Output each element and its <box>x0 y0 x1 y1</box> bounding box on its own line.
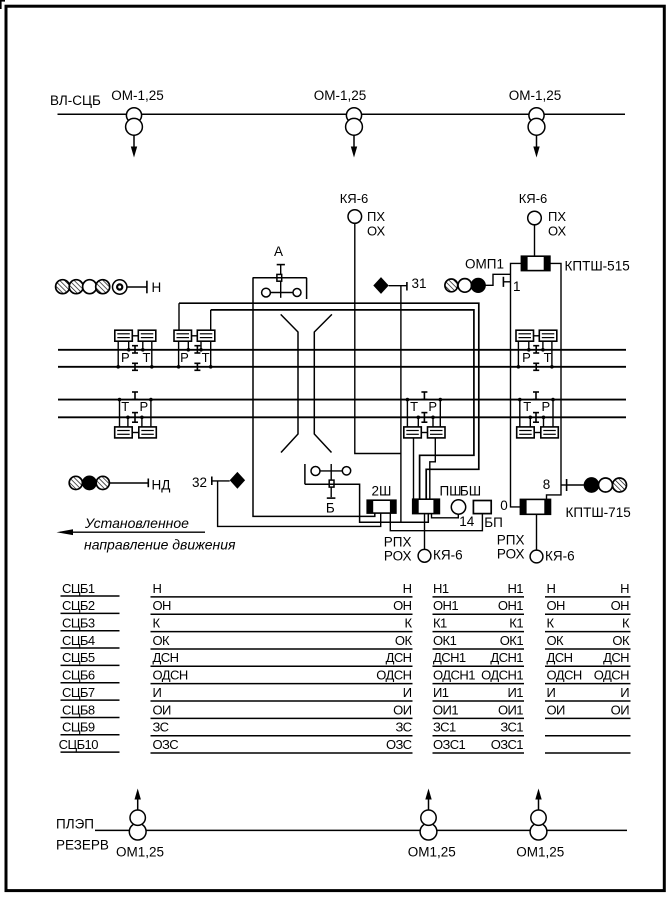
marker diamond 32 <box>230 472 245 489</box>
cable box КЯ-6 below КПТШ-715 <box>530 550 543 563</box>
track transformer box U4a <box>404 427 422 438</box>
wire diamond 31 to tick <box>389 285 407 287</box>
table row СЦБ6 <box>61 668 631 684</box>
wire cabinet right cable <box>547 263 562 501</box>
svg-text:КЯ-6: КЯ-6 <box>433 548 463 563</box>
svg-text:ОЗС: ОЗС <box>386 737 412 752</box>
insulating joint U2 rail B <box>194 363 200 370</box>
svg-text:ОК: ОК <box>395 633 413 648</box>
insulating joint U4 rail A <box>421 413 427 423</box>
svg-text:ПХ: ПХ <box>367 209 385 224</box>
marker diamond 31 <box>373 277 388 294</box>
svg-text:Т: Т <box>202 350 210 365</box>
wire high-voltage signalling line ВЛ-СЦБ <box>58 113 626 115</box>
wire ПШ to 14 <box>432 514 459 518</box>
svg-text:ОК: ОК <box>612 633 630 648</box>
relay box ПШ <box>413 499 440 513</box>
svg-text:ОИ1: ОИ1 <box>498 702 523 717</box>
svg-text:ЗС1: ЗС1 <box>500 720 523 735</box>
svg-text:ПШ: ПШ <box>439 484 461 499</box>
svg-text:ОН: ОН <box>153 598 172 613</box>
svg-text:ВЛ-СЦБ: ВЛ-СЦБ <box>50 93 101 108</box>
terminal tick 1 <box>503 277 510 287</box>
svg-text:ДСН1: ДСН1 <box>490 650 523 665</box>
transformer ОМ1,25 reserve (arrow up) <box>129 789 146 840</box>
insulating joint U6 rail B <box>533 392 539 400</box>
svg-text:Р: Р <box>180 350 189 365</box>
svg-text:31: 31 <box>412 276 427 291</box>
svg-text:ОМ-1,25: ОМ-1,25 <box>314 88 367 103</box>
svg-text:ОЗС: ОЗС <box>153 737 179 752</box>
svg-text:ОМ-1,25: ОМ-1,25 <box>111 88 164 103</box>
svg-text:СЦБ2: СЦБ2 <box>62 598 95 613</box>
wire leads U4 to rails with junction dots <box>406 398 443 427</box>
track transformer box U1b <box>138 330 156 341</box>
svg-text:ОН: ОН <box>393 598 412 613</box>
wire 31 down <box>400 286 402 523</box>
svg-text:ОК1: ОК1 <box>433 633 457 648</box>
wire U2 feed cable up <box>178 303 180 330</box>
track transformer box U6a <box>517 427 535 438</box>
svg-text:СЦБ7: СЦБ7 <box>62 685 95 700</box>
wire link between boxes U3 <box>534 335 540 337</box>
wire U2 relay cable up <box>210 310 212 330</box>
insulating joint U5 rail B <box>132 392 138 400</box>
svg-text:ОН: ОН <box>547 598 566 613</box>
svg-text:ОИ: ОИ <box>547 702 566 717</box>
relay cabinet КПТШ-715 <box>520 499 550 514</box>
svg-text:направление движения: направление движения <box>84 537 236 553</box>
direction arrow <box>57 529 206 535</box>
rail track2 lower <box>58 416 626 418</box>
wire leads U2 to rails with junction dots <box>177 341 213 368</box>
wire ОМП1 to cabinet cable <box>485 274 511 285</box>
svg-text:Т: Т <box>143 350 151 365</box>
relay cabinet КПТШ-515 <box>521 256 550 270</box>
svg-text:К: К <box>622 616 630 631</box>
wire leads U3 to rails with junction dots <box>517 341 554 368</box>
svg-text:ОН1: ОН1 <box>433 598 458 613</box>
svg-text:ДСН: ДСН <box>386 650 412 665</box>
crossing signal А (mast, square, two lamps) <box>253 265 307 299</box>
cable box КЯ-6 (middle) <box>348 210 362 224</box>
relay box 2Ш <box>367 500 396 513</box>
svg-text:ДСН: ДСН <box>153 650 179 665</box>
transformer ОМ1,25 reserve (arrow up) <box>420 789 437 840</box>
svg-text:Н: Н <box>153 581 162 596</box>
signal at 8 (3 lenses) <box>585 478 627 492</box>
svg-text:И: И <box>620 685 629 700</box>
signal ОМП1 (3 lenses) <box>445 279 485 293</box>
svg-text:ОДСН1: ОДСН1 <box>433 668 475 683</box>
transformer ОМ-1,25 №2 (two overlapping circles, arrow down) <box>346 108 363 158</box>
svg-text:ОДСН: ОДСН <box>547 668 582 683</box>
svg-text:Н1: Н1 <box>507 581 523 596</box>
relay box БШ <box>473 501 491 514</box>
svg-text:Р: Р <box>121 350 130 365</box>
svg-text:Н1: Н1 <box>433 581 449 596</box>
wire signal Н leader <box>127 286 147 288</box>
svg-text:И1: И1 <box>433 685 449 700</box>
wire signal 8 stub <box>561 484 567 486</box>
svg-text:БП: БП <box>484 515 503 530</box>
rail track1 lower <box>58 366 626 368</box>
wire leads U1 to rails with junction dots <box>116 341 153 368</box>
svg-text:ДСН: ДСН <box>547 650 573 665</box>
svg-text:Т: Т <box>121 399 129 414</box>
wire КЯ-6 right down to КПТШ-515 <box>534 225 536 256</box>
signal НД (3 lenses) <box>69 476 109 489</box>
svg-text:0: 0 <box>500 498 508 513</box>
rail track1 upper <box>58 349 626 351</box>
svg-text:ОИ: ОИ <box>153 702 172 717</box>
table row СЦБ4 <box>61 633 631 649</box>
svg-text:СЦБ9: СЦБ9 <box>62 720 95 735</box>
wire U4 box b down to ПШ <box>430 438 436 499</box>
svg-text:И: И <box>403 685 412 700</box>
svg-text:Н: Н <box>403 581 412 596</box>
svg-text:ОДСН: ОДСН <box>153 668 188 683</box>
track transformer box U6b <box>541 427 559 438</box>
svg-text:Р: Р <box>139 399 148 414</box>
insulating joint U3 rail B <box>533 363 539 370</box>
svg-text:1: 1 <box>513 279 521 294</box>
wire КЯ-6 middle down <box>355 223 401 453</box>
transformer ОМ1,25 reserve (arrow up) <box>530 789 547 840</box>
svg-text:РЕЗЕРВ: РЕЗЕРВ <box>56 838 109 853</box>
svg-text:ОМ1,25: ОМ1,25 <box>408 845 456 860</box>
road crossing edge left <box>281 314 298 452</box>
svg-text:Н: Н <box>152 280 162 295</box>
insulating joint U3 rail A <box>533 346 539 353</box>
road crossing edge right <box>314 314 332 452</box>
wire ПШ down to КЯ-6 <box>424 514 426 550</box>
svg-text:КПТШ-715: КПТШ-715 <box>566 505 631 520</box>
svg-text:СЦБ10: СЦБ10 <box>59 737 99 752</box>
wire reserve power line ПЛЭП <box>95 829 627 831</box>
svg-text:ПХ: ПХ <box>548 209 566 224</box>
svg-text:ОЗС1: ОЗС1 <box>491 737 524 752</box>
svg-text:А: А <box>274 244 283 259</box>
svg-text:ОДСН: ОДСН <box>376 668 411 683</box>
svg-text:К: К <box>404 616 412 631</box>
track transformer box U5b <box>139 427 157 438</box>
crossing signal Б (two lamps, mast down) <box>305 464 351 498</box>
svg-text:Установленное: Установленное <box>84 515 189 531</box>
svg-text:ОЗС1: ОЗС1 <box>433 737 466 752</box>
svg-text:Р: Р <box>522 350 531 365</box>
svg-text:ОИ: ОИ <box>611 702 630 717</box>
svg-text:ДСН1: ДСН1 <box>433 650 466 665</box>
cable box КЯ-6 (right) <box>528 211 542 225</box>
svg-text:Т: Т <box>544 350 552 365</box>
svg-text:14: 14 <box>459 514 475 529</box>
svg-text:КЯ-6: КЯ-6 <box>340 191 369 206</box>
svg-text:РОХ: РОХ <box>384 549 412 564</box>
cable box КЯ-6 below ПШ <box>418 549 431 562</box>
wire link between boxes U4 <box>421 432 427 434</box>
svg-text:К1: К1 <box>433 616 447 631</box>
svg-text:ОМ1,25: ОМ1,25 <box>516 845 564 860</box>
svg-text:Р: Р <box>541 399 550 414</box>
svg-text:РОХ: РОХ <box>497 547 525 562</box>
svg-text:ПЛЭП: ПЛЭП <box>56 817 94 832</box>
table row СЦБ9 <box>61 720 631 736</box>
svg-text:ОХ: ОХ <box>367 224 386 239</box>
svg-text:ОК: ОК <box>153 633 171 648</box>
svg-text:РПХ: РПХ <box>384 535 412 550</box>
wire link between boxes U1 <box>132 335 138 337</box>
svg-text:ДСН: ДСН <box>603 650 629 665</box>
signal НД mast tick <box>147 479 149 488</box>
svg-text:РПХ: РПХ <box>497 533 525 548</box>
svg-text:БШ: БШ <box>460 484 481 499</box>
svg-text:ОМ-1,25: ОМ-1,25 <box>509 88 562 103</box>
track transformer box U1a <box>115 330 133 341</box>
svg-text:32: 32 <box>192 475 207 490</box>
svg-text:ЗС: ЗС <box>396 720 412 735</box>
wire link between boxes U6 <box>534 432 541 434</box>
track transformer box U2b <box>197 330 215 341</box>
transformer ОМ-1,25 №1 (two overlapping circles, arrow down) <box>126 108 143 158</box>
wire signal НД leader <box>110 482 149 484</box>
svg-text:Т: Т <box>523 399 531 414</box>
svg-text:К: К <box>547 616 555 631</box>
wire bus line 1 <box>179 303 479 499</box>
svg-text:КПТШ-515: КПТШ-515 <box>565 259 630 274</box>
svg-text:ОМП1: ОМП1 <box>465 257 504 272</box>
insulating joint U1 rail B <box>132 363 138 370</box>
wire tick to signal lenses <box>567 484 585 486</box>
track transformer box U5a <box>115 427 133 438</box>
table row СЦБ2 <box>61 598 631 614</box>
svg-text:ЗС1: ЗС1 <box>433 720 456 735</box>
wire bus line 2 <box>211 310 474 499</box>
track transformer box U3b <box>539 330 557 341</box>
svg-text:И1: И1 <box>508 685 524 700</box>
svg-text:КЯ-6: КЯ-6 <box>519 191 548 206</box>
svg-text:ЗС: ЗС <box>153 720 169 735</box>
wire БШ to 2Ш loop <box>390 513 482 531</box>
svg-text:И: И <box>547 685 556 700</box>
wire 32 down to 2Ш <box>218 481 381 527</box>
wire U4 box a down to ПШ <box>413 438 415 499</box>
svg-text:ОИ: ОИ <box>393 702 412 717</box>
signal Н (5 lenses) <box>56 280 127 294</box>
svg-text:СЦБ8: СЦБ8 <box>62 702 95 717</box>
scan mark top-left corner <box>0 0 5 9</box>
svg-text:ОХ: ОХ <box>548 224 567 239</box>
table row СЦБ10 <box>59 737 631 753</box>
transformer ОМ-1,25 №3 (two overlapping circles, arrow down) <box>528 108 545 158</box>
insulating joint U1 rail A <box>132 346 138 353</box>
svg-text:К: К <box>153 616 161 631</box>
table row СЦБ5 <box>61 650 631 666</box>
rail track2 upper <box>58 399 626 401</box>
svg-text:8: 8 <box>543 477 551 492</box>
svg-text:ОДСН1: ОДСН1 <box>481 668 523 683</box>
svg-text:Н: Н <box>547 581 556 596</box>
svg-text:ОК1: ОК1 <box>500 633 524 648</box>
svg-text:Б: Б <box>326 501 335 516</box>
signal Н mast tick <box>146 281 148 294</box>
wire link between boxes U5 <box>132 432 139 434</box>
svg-text:Н: Н <box>620 581 629 596</box>
track transformer box U3a <box>516 330 534 341</box>
svg-text:ОК: ОК <box>547 633 565 648</box>
svg-text:СЦБ3: СЦБ3 <box>62 616 95 631</box>
insulating joint U5 rail A <box>132 413 138 423</box>
tick 31 <box>406 282 408 291</box>
wire leads U5 to rails with junction dots <box>118 398 153 427</box>
svg-text:СЦБ6: СЦБ6 <box>62 668 95 683</box>
insulating joint U6 rail A <box>533 413 539 423</box>
svg-text:СЦБ5: СЦБ5 <box>62 650 95 665</box>
table row СЦБ8 <box>61 702 631 718</box>
battery box 14 circle <box>451 500 465 514</box>
wire link between boxes U2 <box>192 335 198 337</box>
wire tick to diamond 32 <box>212 480 230 482</box>
svg-text:Р: Р <box>428 399 437 414</box>
track transformer box U2a <box>174 330 192 341</box>
svg-text:Т: Т <box>410 399 418 414</box>
svg-text:ОМ1,25: ОМ1,25 <box>116 845 164 860</box>
insulating joint U2 rail A <box>194 346 200 353</box>
wire cabinet left cable <box>511 263 522 507</box>
svg-text:И: И <box>153 685 162 700</box>
svg-text:ОН1: ОН1 <box>498 598 523 613</box>
table row СЦБ1 <box>61 581 631 597</box>
svg-text:КЯ-6: КЯ-6 <box>545 549 575 564</box>
tick 8 <box>566 479 568 491</box>
svg-text:ОИ1: ОИ1 <box>433 702 458 717</box>
insulating joint U4 rail B <box>421 392 427 400</box>
tick 32 <box>211 477 213 486</box>
svg-text:ОДСН: ОДСН <box>594 668 629 683</box>
svg-text:СЦБ1: СЦБ1 <box>62 581 95 596</box>
svg-text:ОН: ОН <box>611 598 630 613</box>
svg-text:СЦБ4: СЦБ4 <box>62 633 95 648</box>
wire КПТШ-715 down to КЯ-6 <box>536 514 538 550</box>
table row СЦБ3 <box>61 616 631 632</box>
wire loop from А to 2Ш <box>253 278 375 517</box>
table row СЦБ7 <box>61 685 631 701</box>
svg-text:К1: К1 <box>509 616 523 631</box>
svg-text:2Ш: 2Ш <box>372 484 392 499</box>
wire leads U6 to rails with junction dots <box>518 398 555 427</box>
svg-text:НД: НД <box>152 478 171 493</box>
wire Б to ПШ <box>305 484 428 522</box>
track transformer box U4b <box>428 427 446 438</box>
